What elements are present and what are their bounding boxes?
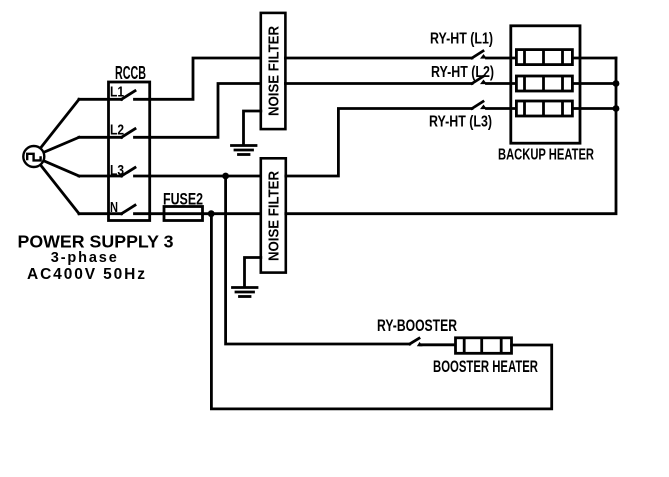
wire source to L1 bbox=[34, 99, 79, 156]
wire L1 RCCB to noise filter 1 bbox=[150, 58, 261, 99]
wire booster heater return loop bbox=[211, 214, 551, 409]
svg-text:BACKUP HEATER: BACKUP HEATER bbox=[498, 146, 594, 163]
RCCB switch pole L2 bbox=[79, 129, 150, 138]
heater element 2 bbox=[516, 76, 572, 91]
wire booster branch from L3 node bbox=[226, 176, 410, 344]
wire L2 noise filter 1 to relay bbox=[285, 82, 472, 85]
svg-text:RY-HT (L1): RY-HT (L1) bbox=[430, 31, 493, 48]
wire N noise filter 2 to heater bus bbox=[286, 58, 616, 214]
wire L2 RCCB to noise filter 1 bbox=[150, 84, 261, 138]
RCCB switch pole N bbox=[79, 205, 150, 214]
svg-text:3-phase: 3-phase bbox=[51, 250, 117, 266]
svg-text:RCCB: RCCB bbox=[115, 63, 146, 83]
wire L1 noise filter 1 to relay bbox=[285, 57, 472, 60]
svg-text:NOISE FILTER: NOISE FILTER bbox=[267, 26, 283, 116]
svg-text:RY-HT (L3): RY-HT (L3) bbox=[429, 114, 492, 131]
relay switch RY-HT L2 bbox=[472, 77, 516, 85]
backup heater box bbox=[511, 26, 580, 143]
wire heater2 to bus bbox=[572, 82, 616, 85]
svg-text:POWER SUPPLY 3: POWER SUPPLY 3 bbox=[18, 232, 174, 252]
booster heater element bbox=[456, 338, 512, 354]
wire source to L2 bbox=[34, 137, 79, 156]
svg-text:RY-BOOSTER: RY-BOOSTER bbox=[377, 317, 457, 335]
power supply caption bbox=[18, 232, 174, 283]
RCCB box bbox=[109, 82, 150, 221]
svg-text:BOOSTER HEATER: BOOSTER HEATER bbox=[433, 358, 538, 376]
wire N RCCB to fuse bbox=[150, 212, 164, 215]
noise filter 2 bbox=[261, 158, 286, 272]
relay switch RY-BOOSTER bbox=[410, 338, 456, 346]
wire noise filter 1 ground stub bbox=[244, 111, 261, 145]
noise filter 1 bbox=[261, 13, 286, 129]
AC source power supply symbol bbox=[23, 146, 44, 167]
wire N fuse to noise filter 2 bbox=[203, 212, 261, 215]
wire source to N bbox=[34, 157, 79, 214]
svg-text:AC400V 50Hz: AC400V 50Hz bbox=[27, 266, 145, 283]
wire L3 noise filter 2 up to relay row bbox=[286, 109, 472, 177]
ground for noise filter 1 bbox=[232, 146, 257, 155]
node L3 branch junction bbox=[222, 173, 229, 180]
svg-text:NOISE FILTER: NOISE FILTER bbox=[267, 171, 283, 261]
heater element 3 bbox=[516, 101, 572, 116]
wire heater3 to bus bbox=[572, 107, 616, 110]
heater element 1 bbox=[516, 50, 572, 65]
RCCB switch pole L1 bbox=[79, 91, 150, 100]
wire source to L3 bbox=[34, 157, 79, 177]
relay switch RY-HT L3 bbox=[472, 102, 516, 110]
wire noise filter 2 ground stub bbox=[245, 258, 261, 288]
svg-text:RY-HT (L2): RY-HT (L2) bbox=[431, 64, 494, 81]
wire L3 RCCB to noise filter 2 bbox=[150, 175, 261, 178]
wire heater1 to bus bbox=[572, 57, 616, 60]
node bus junction heater3 bbox=[613, 105, 620, 112]
relay switch RY-HT L1 bbox=[472, 51, 516, 59]
node N branch junction bbox=[208, 210, 215, 217]
fuse FUSE2 bbox=[164, 207, 203, 221]
node bus junction heater2 bbox=[613, 80, 620, 87]
ground for noise filter 2 bbox=[233, 288, 258, 297]
RCCB switch pole L3 bbox=[79, 168, 150, 177]
